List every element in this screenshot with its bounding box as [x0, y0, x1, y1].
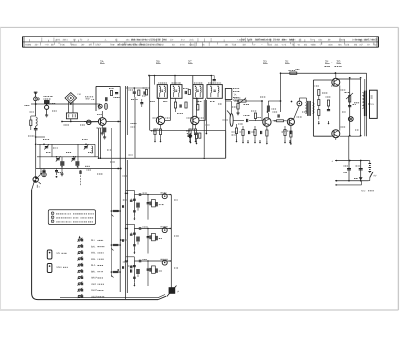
section label 2B: [156, 60, 161, 64]
svg-text:1M: 1M: [242, 44, 245, 47]
dial scale band: [23, 37, 379, 48]
svg-text:-m: -m: [297, 44, 300, 47]
label: [322, 92, 327, 94]
FM dipole antenna A2: [65, 93, 77, 113]
antenna A1: [34, 92, 38, 97]
wire: [335, 180, 369, 182]
svg-text:.k4-: .k4-: [327, 38, 331, 41]
svg-text:USLP: USLP: [91, 295, 97, 298]
shield box output: [313, 80, 331, 136]
svg-text:2A: 2A: [100, 60, 104, 64]
wire: [225, 131, 227, 158]
shield box AM: [96, 86, 120, 111]
svg-text:9791: 9791: [156, 44, 162, 47]
node +: [332, 160, 338, 164]
dial drive pulley: [32, 174, 41, 190]
wire: [210, 76, 212, 85]
switch contact S1a: [77, 238, 103, 242]
wire: [366, 73, 368, 136]
push button S1: [47, 250, 52, 259]
tuning capacitor CV4: [84, 144, 89, 150]
IF transformer IFT4: [207, 83, 222, 98]
svg-text:5-06: 5-06: [60, 44, 65, 47]
label: [57, 266, 68, 269]
ground: [318, 121, 330, 125]
capacitor C8: [177, 104, 183, 113]
svg-text:4M2: 4M2: [85, 98, 90, 101]
switch contact S3a: [77, 263, 103, 267]
label: [43, 139, 87, 141]
battery BT1: [369, 161, 372, 172]
svg-text:--: --: [261, 45, 263, 47]
svg-text:-68m: -68m: [311, 44, 316, 47]
svg-text:28-: 28-: [81, 44, 85, 47]
jack J1: [34, 97, 40, 101]
svg-text:4+M: 4+M: [180, 44, 185, 47]
label: [57, 252, 67, 255]
wire: [199, 98, 206, 120]
resistor R9: [197, 98, 199, 110]
svg-text:9V: 9V: [374, 175, 377, 178]
svg-text:5z28: 5z28: [247, 38, 253, 41]
svg-text:-: -: [331, 60, 332, 64]
wire rail: [119, 86, 121, 292]
resistor R6: [188, 90, 190, 95]
wire: [125, 160, 127, 299]
svg-text:Netz: Netz: [361, 190, 366, 193]
svg-text:4003: 4003: [189, 44, 195, 47]
volume potentiometer P1: [167, 286, 180, 297]
wire: [158, 98, 160, 116]
svg-text:8H4: 8H4: [162, 38, 167, 41]
resistor R4: [143, 88, 148, 95]
resistor R17: [251, 111, 257, 121]
tuning capacitor CV3: [71, 156, 76, 162]
svg-text:69m-: 69m-: [282, 38, 288, 41]
capacitor C6: [133, 87, 136, 97]
wire: [154, 75, 156, 85]
wire: [36, 168, 121, 170]
wire left rail: [125, 86, 127, 160]
wire: [35, 133, 37, 169]
mechanical link: [79, 170, 81, 186]
wire: [31, 103, 44, 105]
svg-text:.+k2: .+k2: [240, 38, 245, 41]
resistor R10: [195, 133, 197, 145]
detector cluster: [199, 132, 237, 138]
component value labels: [46, 86, 358, 268]
wire: [37, 143, 95, 145]
svg-text:2B: 2B: [156, 60, 160, 64]
electrolytic C14: [344, 161, 352, 181]
svg-text:2H: 2H: [150, 44, 153, 47]
svg-text:BLL: BLL: [91, 239, 96, 242]
wire: [49, 103, 96, 105]
resistor R8: [185, 102, 187, 108]
audio network AN3: [282, 126, 292, 144]
ground: [60, 172, 63, 176]
wire: [126, 86, 128, 135]
wire: [96, 103, 98, 105]
wire: [361, 181, 363, 185]
resistor R5: [138, 90, 140, 96]
wire: [134, 97, 136, 158]
svg-text:7.k8: 7.k8: [232, 44, 237, 47]
switch contact S3b: [77, 269, 103, 273]
svg-text:2827: 2827: [255, 38, 261, 41]
diode D2: [354, 177, 363, 180]
coupling network: [273, 114, 287, 121]
label: [296, 69, 300, 71]
capacitor C22: [75, 161, 79, 167]
capacitor C13: [348, 105, 356, 107]
wire: [101, 111, 103, 118]
wire: [253, 120, 263, 122]
wire: [360, 79, 362, 136]
wire: [98, 128, 100, 158]
svg-text:BRL: BRL: [91, 270, 96, 273]
switch contact S5b: [77, 294, 104, 298]
wire: [203, 100, 205, 157]
wire: [94, 144, 96, 157]
transistor TR1b: [98, 103, 102, 110]
section label 2D: [263, 60, 268, 64]
wire: [62, 119, 98, 123]
svg-text:75z-: 75z-: [373, 44, 378, 47]
wire: [106, 121, 121, 123]
resistor R15: [289, 70, 297, 77]
wire: [266, 126, 268, 130]
resistor RO4: [326, 97, 331, 106]
wire: [268, 100, 280, 102]
capacitor C1: [34, 126, 38, 133]
svg-text:SSLP: SSLP: [91, 289, 97, 292]
wire: [254, 108, 263, 110]
capacitor C3: [114, 93, 120, 98]
switch contact S5a: [77, 288, 103, 292]
label: [131, 100, 138, 128]
wire: [290, 125, 292, 131]
svg-text:SRLP: SRLP: [91, 277, 97, 280]
label: [325, 60, 342, 67]
wire: [165, 98, 171, 120]
svg-text:2373: 2373: [149, 38, 155, 41]
capacitor C10: [188, 135, 191, 136]
section label 2G: [337, 60, 342, 64]
capacitor C9: [189, 133, 192, 144]
resistor R7: [174, 98, 176, 112]
interstage jack: [297, 101, 302, 106]
wire: [261, 100, 263, 120]
wire: [226, 100, 231, 102]
svg-text:4H1: 4H1: [56, 38, 61, 41]
svg-text:.1..: .1..: [104, 38, 108, 41]
svg-text:1: 1: [52, 212, 53, 215]
wire: [99, 128, 101, 158]
switch contact S2b: [77, 257, 103, 261]
svg-text:LS: LS: [371, 103, 374, 106]
label 4M2: [85, 97, 94, 101]
transistor TR6: [332, 78, 340, 86]
input filter FL1: [44, 97, 56, 118]
resistor tap: [111, 205, 124, 216]
coil L1: [36, 117, 38, 126]
audio network AN2: [252, 126, 262, 144]
dial wheel: [42, 172, 46, 176]
push button S2: [47, 264, 52, 273]
svg-text:USO: USO: [91, 283, 96, 286]
transistor TR2: [156, 116, 164, 124]
label TA: [234, 94, 237, 97]
wire: [348, 136, 350, 160]
FET oval: [104, 103, 107, 109]
wire: [196, 98, 198, 116]
svg-text:3: 3: [52, 220, 53, 223]
wire: [225, 100, 227, 159]
svg-text:FM: FM: [78, 93, 81, 96]
wire: [335, 160, 369, 162]
resistor R19: [103, 128, 106, 140]
label: [58, 166, 90, 172]
svg-text:-x+3: -x+3: [282, 44, 287, 47]
wire: [77, 144, 79, 168]
resistor RO3: [318, 110, 320, 120]
wire: [126, 160, 128, 293]
wire: [294, 106, 299, 119]
wire: [335, 184, 362, 186]
svg-text:23-: 23-: [170, 38, 174, 41]
wire: [336, 78, 361, 80]
svg-text:k767: k767: [96, 44, 102, 47]
resistor R14: [290, 131, 292, 145]
wire: [267, 113, 269, 118]
wire rail: [110, 128, 112, 277]
wire: [369, 161, 370, 181]
tone network TN1: [126, 190, 172, 220]
capacitor C5: [144, 91, 145, 94]
node -: [336, 180, 338, 186]
svg-text:4HM1: 4HM1: [138, 44, 145, 47]
IF transformer IFT2: [171, 83, 183, 98]
capacitor C23: [105, 97, 108, 101]
wire: [35, 136, 45, 138]
shield box IF-A: [150, 76, 193, 131]
driver transformer T2: [305, 101, 314, 116]
output transformer T3: [362, 79, 367, 136]
wire: [335, 72, 337, 140]
wire: [340, 135, 361, 137]
IF transformer IFT1: [157, 83, 167, 98]
label 9V: [374, 175, 377, 178]
resistor RO2: [318, 100, 320, 110]
capacitor C11: [128, 266, 133, 273]
tone network TN2: [126, 224, 172, 254]
resistor tap: [111, 239, 124, 250]
section label 2F: [325, 60, 330, 64]
tuning capacitor CV2: [56, 156, 61, 162]
svg-text:M08: M08: [289, 38, 294, 41]
svg-text:3M.1: 3M.1: [62, 38, 68, 41]
wire: [37, 156, 98, 158]
resistor R11: [234, 98, 262, 104]
switch contact S4b: [77, 282, 104, 286]
IF transformer IFT3: [193, 83, 203, 98]
keyboard block outline: [32, 190, 158, 300]
section label 2C: [188, 60, 193, 64]
wire: [349, 79, 351, 136]
svg-text:TA: TA: [234, 94, 237, 97]
svg-text:4M: 4M: [354, 44, 357, 47]
capacitor C7: [183, 89, 188, 95]
svg-text:BAL: BAL: [91, 245, 96, 248]
capacitor C19: [244, 116, 254, 123]
wire: [339, 86, 341, 131]
wire: [101, 125, 104, 135]
padder capacitor C18: [42, 169, 45, 172]
resistor tap: [111, 266, 124, 277]
svg-text:+7m3: +7m3: [117, 44, 124, 47]
capacitor C20: [140, 99, 143, 107]
emitter network E2: [186, 125, 197, 143]
switch contact S1b: [77, 244, 104, 248]
svg-text:2E: 2E: [285, 60, 289, 64]
label: [361, 190, 374, 193]
capacitor C17: [55, 169, 58, 178]
wire: [84, 121, 98, 123]
legend box: [48, 210, 95, 225]
svg-text:MV: MV: [57, 252, 61, 255]
wire: [35, 101, 37, 116]
svg-text:2: 2: [52, 216, 53, 219]
svg-text:z+xH: z+xH: [125, 44, 131, 47]
wire: [170, 195, 172, 288]
wire: [205, 100, 207, 134]
label: [187, 133, 191, 135]
capacitor C16: [190, 135, 191, 138]
wire AGC: [100, 157, 225, 159]
coil L2: [92, 146, 93, 153]
wire: [60, 297, 158, 299]
emitter network E1: [151, 125, 162, 143]
resistor R1: [30, 116, 36, 130]
svg-text:7z26: 7z26: [344, 44, 350, 47]
svg-text:x6m: x6m: [328, 44, 332, 47]
label: [78, 93, 81, 96]
wire: [299, 98, 306, 102]
label: [233, 89, 240, 99]
shield box IF-B: [193, 76, 226, 131]
label: [37, 185, 40, 189]
svg-text:++9: ++9: [44, 44, 49, 47]
svg-text:2G: 2G: [337, 60, 342, 64]
switch contact S2a: [77, 250, 103, 254]
wire: [126, 87, 150, 89]
capacitor C4: [211, 75, 216, 81]
wire: [233, 120, 244, 122]
resistor R3: [109, 89, 113, 96]
svg-text:MSA: MSA: [57, 266, 63, 269]
svg-text:2+8: 2+8: [369, 38, 374, 41]
resistor R20: [267, 101, 276, 112]
wire top rail: [150, 75, 212, 77]
capacitor C21: [60, 161, 64, 167]
section label 2E: [285, 60, 290, 64]
capacitor C12: [327, 106, 330, 111]
resistor R12: [235, 124, 237, 143]
svg-text:2F: 2F: [325, 60, 329, 64]
section label 2A: [100, 60, 105, 64]
svg-text:7-: 7-: [375, 38, 377, 41]
svg-text:M4x0: M4x0: [71, 44, 77, 47]
transistor TR3: [191, 116, 199, 124]
input box: [225, 89, 239, 101]
svg-text:0Hk-: 0Hk-: [142, 38, 147, 41]
tone network TN3: [126, 257, 172, 287]
wire supply: [281, 72, 367, 74]
ground: [40, 169, 42, 175]
transistor TR5: [287, 118, 294, 125]
resistor RO1: [318, 90, 320, 100]
transistor TR1: [97, 115, 106, 126]
svg-text:BLA: BLA: [91, 264, 96, 267]
svg-text:33+: 33+: [35, 44, 40, 47]
label: [25, 106, 35, 137]
electrolytic C15: [356, 161, 363, 181]
loudspeaker LS: [368, 90, 377, 118]
wire: [39, 144, 41, 168]
svg-text:MSL: MSL: [91, 252, 96, 255]
tuning capacitor CV1: [44, 144, 49, 150]
balun T1: [66, 113, 77, 119]
NTC resistor R16: [345, 93, 354, 103]
wire: [158, 295, 166, 300]
switch SW1: [370, 172, 374, 181]
label: [354, 102, 359, 104]
audio network AN1: [240, 126, 250, 144]
wire: [174, 75, 176, 85]
transistor TR4: [263, 118, 271, 126]
switch contact S4a: [77, 275, 103, 279]
svg-text:Hm: Hm: [338, 44, 342, 47]
wire: [61, 157, 63, 172]
svg-text:MSL: MSL: [91, 258, 96, 261]
wire: [51, 144, 53, 157]
volume pot P2: [227, 111, 233, 127]
switch pointer: [79, 236, 81, 239]
pilot lamp LA1: [348, 117, 353, 122]
transistor TR7: [332, 130, 340, 138]
wire: [231, 101, 233, 114]
diode D1: [86, 120, 92, 124]
svg-text:H48M: H48M: [25, 44, 31, 47]
resistor R18: [236, 100, 239, 115]
wire: [35, 169, 37, 177]
wire: [280, 72, 282, 112]
resistor R13: [266, 130, 268, 145]
